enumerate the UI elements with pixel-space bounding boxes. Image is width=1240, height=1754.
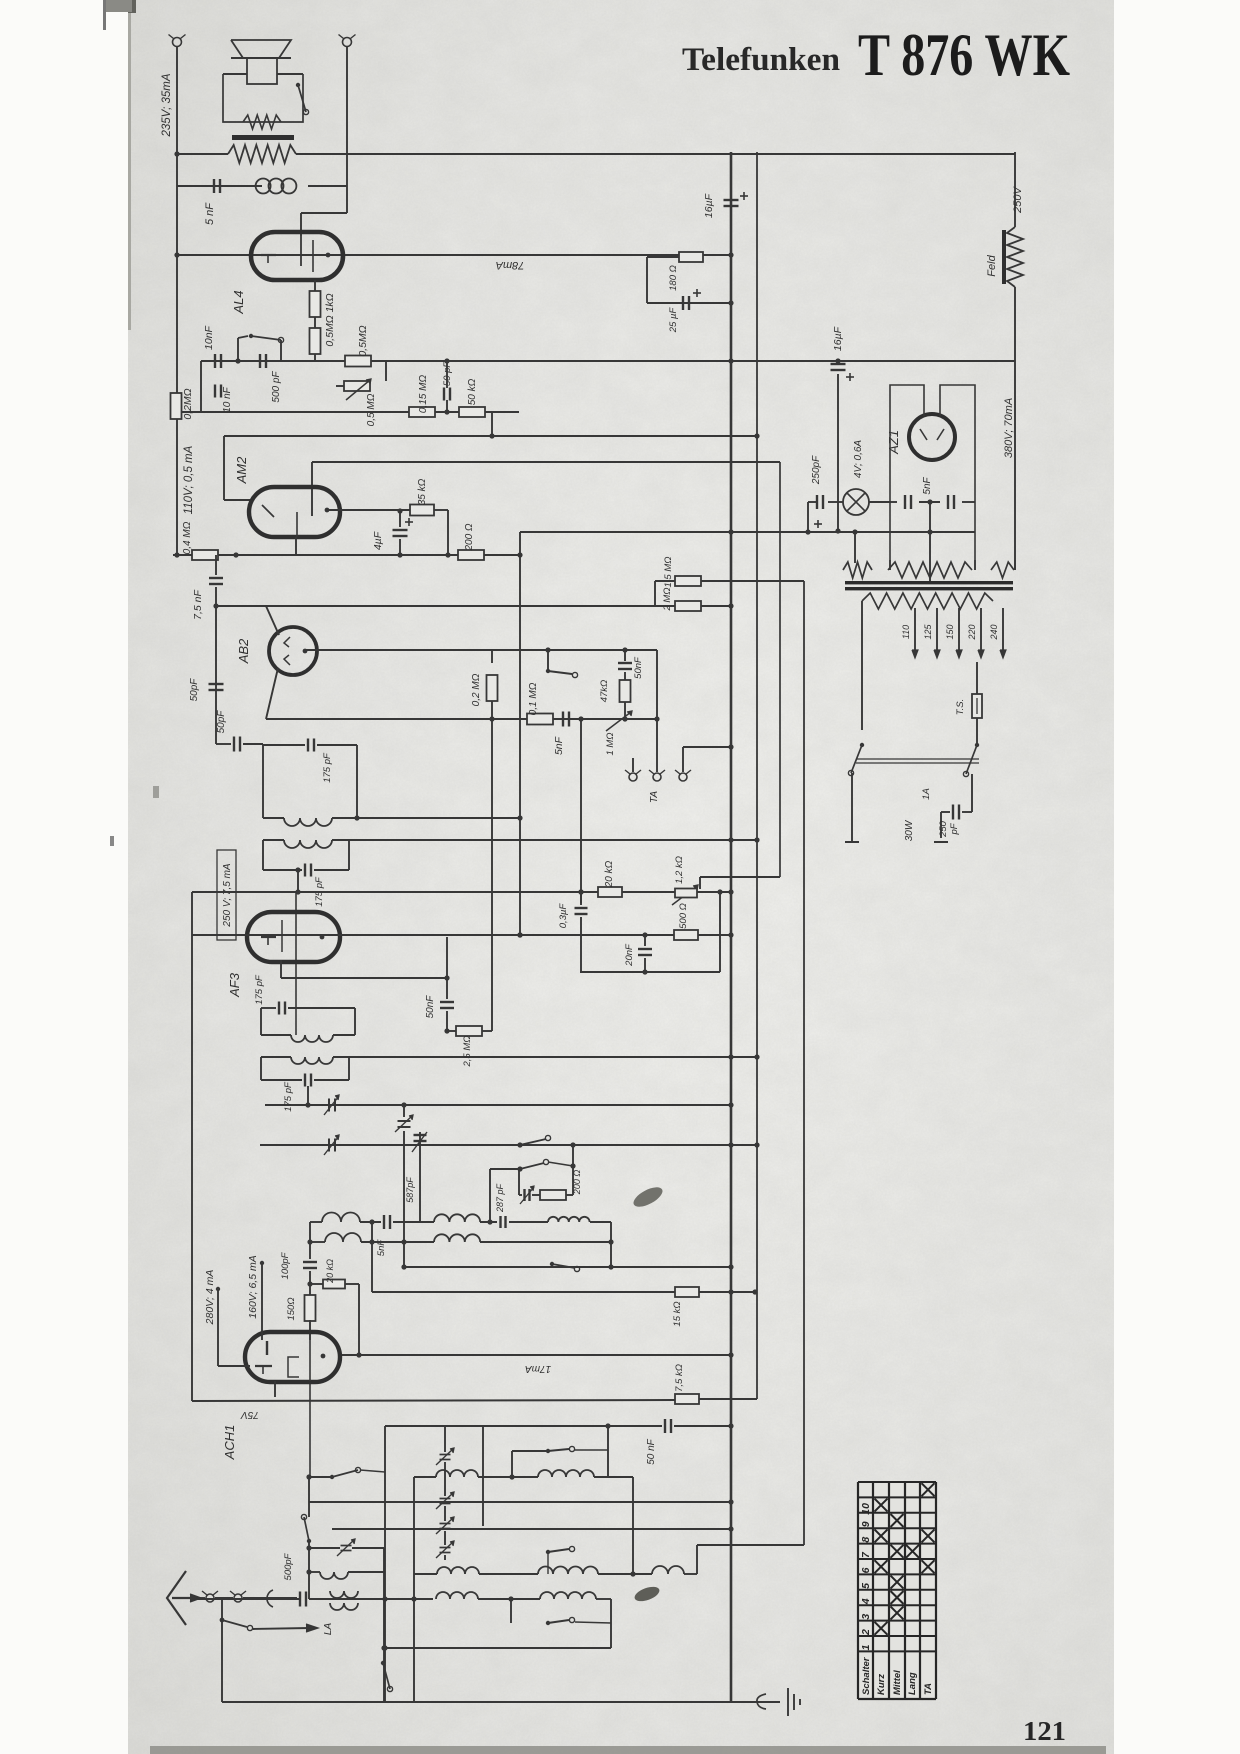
svg-text:2: 2: [860, 1629, 872, 1636]
svg-text:1: 1: [860, 1644, 872, 1650]
svg-text:30W: 30W: [904, 819, 915, 841]
svg-text:0,5MΩ 1kΩ: 0,5MΩ 1kΩ: [324, 293, 336, 346]
svg-text:175 pF: 175 pF: [283, 1081, 294, 1112]
svg-text:1,5 MΩ: 1,5 MΩ: [663, 557, 674, 588]
svg-text:500pF: 500pF: [283, 1552, 294, 1580]
svg-text:AB2: AB2: [236, 638, 251, 664]
svg-text:Kurz: Kurz: [876, 1674, 887, 1695]
svg-text:10nF: 10nF: [203, 325, 215, 350]
svg-text:17mA: 17mA: [525, 1363, 551, 1374]
svg-text:0,2MΩ: 0,2MΩ: [182, 388, 194, 419]
svg-text:121: 121: [1023, 1716, 1066, 1746]
svg-text:5nF: 5nF: [922, 476, 933, 494]
svg-text:200 Ω: 200 Ω: [572, 1170, 582, 1196]
svg-text:25 µF: 25 µF: [668, 307, 679, 334]
svg-text:5 nF: 5 nF: [204, 202, 216, 225]
svg-text:10: 10: [860, 1503, 872, 1515]
svg-text:1,2 kΩ: 1,2 kΩ: [674, 856, 685, 884]
svg-text:220: 220: [967, 624, 977, 640]
svg-text:125: 125: [923, 624, 933, 640]
svg-text:Schalter: Schalter: [861, 1656, 872, 1695]
svg-text:100pF: 100pF: [280, 1251, 291, 1279]
svg-text:50nF: 50nF: [633, 656, 644, 679]
svg-text:pF: pF: [949, 822, 960, 835]
svg-text:0,1 MΩ: 0,1 MΩ: [528, 682, 539, 715]
svg-text:250 V; 7,5 mA: 250 V; 7,5 mA: [222, 863, 233, 928]
svg-text:10 nF: 10 nF: [222, 386, 233, 412]
svg-text:ACH1: ACH1: [222, 1425, 237, 1461]
svg-text:50nF: 50nF: [425, 995, 436, 1019]
svg-text:T.S.: T.S.: [955, 699, 966, 716]
svg-text:Lang: Lang: [907, 1672, 918, 1695]
svg-text:20 kΩ: 20 kΩ: [604, 860, 615, 888]
svg-text:0,4 MΩ: 0,4 MΩ: [182, 521, 193, 554]
svg-text:240: 240: [989, 624, 999, 640]
svg-text:160V; 6,5 mA: 160V; 6,5 mA: [247, 1255, 259, 1318]
svg-text:2,5 MΩ: 2,5 MΩ: [462, 1036, 473, 1068]
svg-text:3: 3: [860, 1614, 872, 1620]
svg-text:TA: TA: [649, 791, 660, 803]
svg-text:180 Ω: 180 Ω: [668, 265, 679, 291]
svg-text:0,5 MΩ: 0,5 MΩ: [366, 393, 377, 426]
svg-text:0,15 MΩ: 0,15 MΩ: [418, 375, 429, 414]
svg-text:AL4: AL4: [231, 290, 246, 314]
svg-text:200 Ω: 200 Ω: [464, 523, 475, 551]
svg-text:9: 9: [860, 1521, 872, 1527]
svg-text:4: 4: [860, 1598, 872, 1605]
svg-text:Feld: Feld: [986, 254, 998, 276]
svg-text:1 MΩ: 1 MΩ: [605, 732, 616, 755]
svg-text:500 pF: 500 pF: [271, 371, 282, 403]
svg-text:587pF: 587pF: [405, 1177, 415, 1203]
svg-text:280V; 4 mA: 280V; 4 mA: [204, 1270, 216, 1326]
svg-text:50 kΩ: 50 kΩ: [467, 378, 478, 405]
svg-text:0,2 MΩ: 0,2 MΩ: [471, 673, 482, 706]
svg-text:AZ1: AZ1: [886, 430, 901, 455]
svg-text:500 Ω: 500 Ω: [678, 903, 689, 929]
svg-text:15 kΩ: 15 kΩ: [672, 1301, 683, 1326]
svg-text:47kΩ: 47kΩ: [599, 680, 610, 703]
svg-text:175 pF: 175 pF: [254, 974, 265, 1005]
svg-text:235V; 35mA: 235V; 35mA: [161, 73, 173, 137]
svg-text:1A: 1A: [921, 788, 932, 800]
svg-text:150: 150: [945, 624, 955, 639]
svg-text:4µF: 4µF: [372, 531, 384, 550]
svg-text:7,5 kΩ: 7,5 kΩ: [674, 1364, 685, 1392]
svg-text:TA: TA: [923, 1683, 934, 1695]
svg-text:5nF: 5nF: [553, 736, 565, 755]
svg-text:AM2: AM2: [234, 456, 249, 485]
svg-text:150Ω: 150Ω: [286, 1297, 297, 1320]
svg-text:5: 5: [860, 1583, 872, 1589]
svg-text:78mA: 78mA: [496, 259, 525, 271]
svg-text:50pF: 50pF: [189, 678, 200, 702]
svg-text:110: 110: [901, 625, 911, 639]
svg-text:Mittel: Mittel: [892, 1670, 903, 1695]
svg-text:Telefunken: Telefunken: [682, 42, 840, 78]
svg-text:75V: 75V: [240, 1409, 259, 1420]
svg-text:50pF: 50pF: [216, 710, 227, 734]
svg-text:16µF: 16µF: [832, 326, 844, 351]
svg-text:8: 8: [860, 1537, 872, 1543]
svg-text:7,5 nF: 7,5 nF: [192, 590, 204, 620]
svg-text:250pF: 250pF: [811, 455, 822, 485]
svg-text:380V; 70mA: 380V; 70mA: [1003, 398, 1015, 458]
svg-text:20 kΩ: 20 kΩ: [325, 1259, 335, 1284]
svg-text:110V; 0,5 mA: 110V; 0,5 mA: [183, 445, 195, 514]
svg-text:2 MΩ: 2 MΩ: [662, 587, 673, 611]
svg-text:175 pF: 175 pF: [322, 752, 333, 783]
svg-text:250V: 250V: [1012, 185, 1024, 213]
svg-text:0,3µF: 0,3µF: [558, 903, 569, 929]
svg-text:0,5MΩ: 0,5MΩ: [357, 325, 369, 356]
svg-text:35 kΩ: 35 kΩ: [417, 478, 428, 505]
svg-text:287 pF: 287 pF: [495, 1183, 505, 1213]
svg-text:20nF: 20nF: [624, 943, 635, 967]
svg-text:AF3: AF3: [227, 972, 242, 998]
svg-text:16µF: 16µF: [703, 193, 715, 218]
svg-text:50 nF: 50 nF: [646, 1438, 657, 1464]
svg-text:250: 250: [938, 820, 949, 838]
svg-text:4V; 0,6A: 4V; 0,6A: [853, 440, 864, 479]
svg-text:LA: LA: [323, 1623, 334, 1636]
svg-text:T 876 WK: T 876 WK: [858, 22, 1070, 88]
svg-text:6: 6: [860, 1567, 872, 1573]
